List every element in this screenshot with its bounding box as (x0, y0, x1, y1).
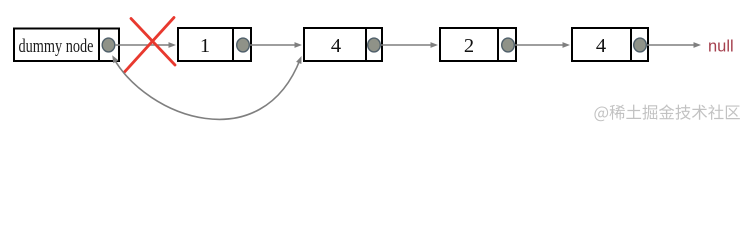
watermark @稀土掘金技术社区 (594, 104, 739, 121)
node 1 (178, 27, 251, 62)
node 4 (304, 27, 382, 62)
curved arrow dummy to node 4 (112, 55, 301, 119)
svg-text:1: 1 (200, 35, 210, 57)
dummy node box (14, 28, 119, 63)
svg-text:dummy node: dummy node (19, 36, 94, 57)
arrow node4b to null (647, 42, 701, 48)
node 4 last (572, 27, 648, 62)
red X cross-out (125, 18, 176, 73)
arrow node2 to node4b (515, 42, 570, 48)
svg-text:null: null (708, 38, 734, 56)
arrow dummy to node1 (115, 42, 176, 48)
node 2 (440, 27, 516, 62)
svg-text:2: 2 (464, 35, 474, 57)
svg-text:4: 4 (596, 35, 606, 57)
svg-text:4: 4 (331, 35, 341, 57)
arrow node1 to node4 (250, 42, 302, 48)
arrow node4 to node2 (381, 42, 438, 48)
